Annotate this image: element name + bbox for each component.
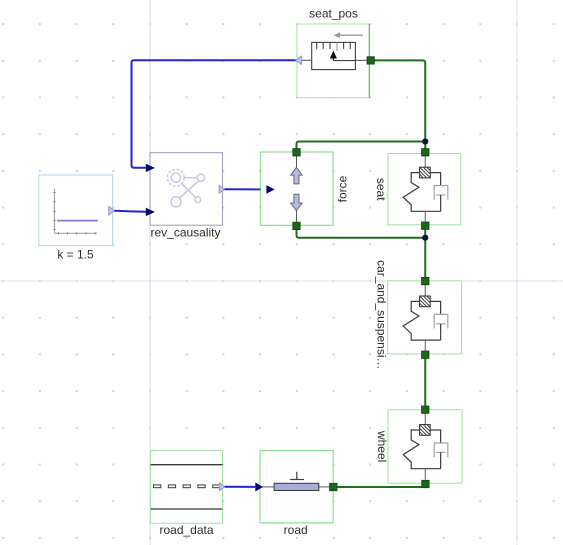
grid axis y=281 [0,280,563,282]
input connector rev_causality.u1 [146,165,154,172]
connector square wheel.flange_a [422,406,429,413]
mass-spring-damper icon seat [403,156,448,222]
output connector road_data.y [219,483,224,491]
component road bounding box [260,451,333,523]
wire car_and_suspension.flange_b to wheel.flange_a (green) [424,357,426,408]
grid axis x=150 [149,0,151,545]
component seat bounding box [388,154,461,225]
svg-text:road: road [284,523,308,537]
input connector rev_causality.u2 [146,209,154,216]
connector square seat.flange_a [422,149,429,156]
component constant k bounding box [39,175,113,246]
wire seat_pos.flange to node A (green) [371,60,426,141]
wire seat.flange_b through node B to car_and_suspension.flange_a (green) [424,228,426,279]
output connector rev_causality.y [219,185,224,193]
input connector force.f [267,186,274,193]
connector square force.flange_a [293,149,300,156]
input connector road.s_ref [256,483,262,490]
output connector constant.y [109,206,115,214]
svg-text:k = 1.5: k = 1.5 [57,248,94,262]
svg-text:wheel: wheel [375,430,389,462]
constant icon axes [53,189,97,235]
sensor icon seat_pos [301,42,367,69]
svg-text:car_and_suspensi…: car_and_suspensi… [375,260,389,369]
force icon [291,156,302,222]
connector square wheel.flange_b [422,480,429,487]
connector square seat_pos.flange [367,57,374,64]
junction node B [422,235,428,241]
mass-spring-damper icon car_and_suspension [403,285,448,351]
constant value line [57,220,98,222]
svg-text:seat_pos: seat_pos [309,7,358,21]
grid axis x=517 [516,0,518,545]
junction node A [422,138,428,144]
mass-spring-damper icon wheel [403,413,448,479]
connector square car_and_suspension.flange_b [422,351,429,358]
road_data icon [151,465,223,509]
component wheel bounding box [388,410,462,483]
wire road.flange to wheel.flange_b (green) [335,486,425,488]
rev_causality icon [168,169,205,207]
connector square road.flange [330,483,337,490]
wire force.flange_b to node B (green) [297,228,426,238]
wire seat_pos.s to rev_causality.u1 (blue) [132,60,296,167]
connector square seat.flange_b [422,222,429,229]
output connector seat_pos.s (left, pointing left) [296,56,302,64]
gray direction arrow of seat_pos [334,32,363,38]
wire constant.y to rev_causality.u2 (blue) [114,211,146,212]
wire rev_causality.y to force.f (blue) [225,188,261,190]
road icon (position actuator) [262,472,330,491]
wire node A to force.flange_a (green) [297,142,426,151]
svg-text:rev_causality: rev_causality [150,225,220,239]
component road_data bounding box [151,451,223,524]
component rev_causality bounding box [150,153,223,226]
wire road_data.y to road.s_ref (blue) [225,486,256,488]
component seat_pos bounding box [297,24,369,98]
component force bounding box [261,152,334,225]
svg-text:seat: seat [374,178,388,201]
wire node A to seat.flange_a (green) [424,142,426,151]
svg-text:force: force [336,175,350,202]
connector square force.flange_b [293,222,300,229]
svg-text:road_data: road_data [159,523,213,537]
component car_and_suspension bounding box [388,281,462,354]
connector square car_and_suspension.flange_a [422,278,429,285]
